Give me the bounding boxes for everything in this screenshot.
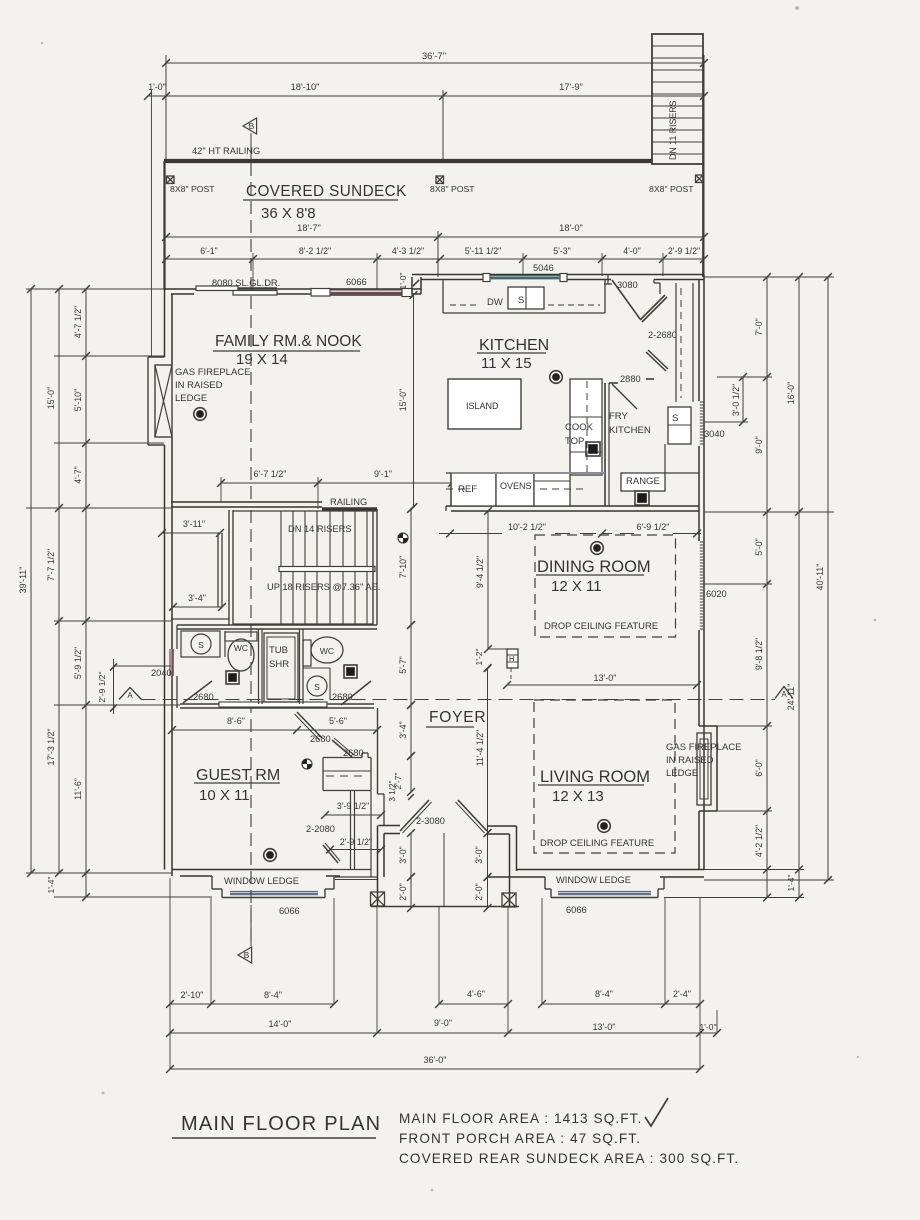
dim 13-0 dashed — [507, 684, 697, 686]
door 8080 sliding — [196, 286, 238, 291]
railing left edge — [163, 161, 165, 290]
counter e of ovens — [534, 473, 570, 506]
wc2 bowl — [311, 637, 343, 663]
pantry shelf dashed — [680, 288, 682, 398]
svg-text:9'-0": 9'-0" — [434, 1018, 452, 1028]
fireplace right bump — [699, 725, 717, 727]
ext line x166 top — [165, 55, 167, 160]
ext x377 — [376, 253, 378, 290]
dim 2-9half left — [113, 659, 115, 714]
kitchen light — [550, 371, 563, 384]
svg-text:SHR: SHR — [269, 659, 289, 670]
svg-text:6'-1": 6'-1" — [200, 246, 218, 256]
dim 2-0 porch R — [487, 877, 489, 908]
stairs DN 11 risers box — [652, 34, 703, 164]
dim 2-9half guest — [330, 849, 381, 851]
island — [448, 379, 521, 429]
svg-text:GAS FIREPLACE: GAS FIREPLACE — [175, 367, 251, 378]
jog wall 1'-0" — [411, 277, 413, 294]
dim 3-0 porch R — [487, 833, 489, 877]
svg-text:19 X 14: 19 X 14 — [236, 351, 288, 368]
svg-text:LIVING ROOM: LIVING ROOM — [540, 768, 650, 786]
fry kitchen walls — [604, 383, 606, 506]
svg-text:5'-3": 5'-3" — [553, 246, 571, 256]
svg-text:S: S — [672, 413, 678, 424]
vanity2 sink — [307, 676, 327, 696]
svg-text:2'-10": 2'-10" — [181, 990, 204, 1000]
svg-text:12 X 11: 12 X 11 — [551, 578, 602, 595]
svg-text:A: A — [127, 691, 133, 700]
svg-text:S: S — [314, 682, 320, 692]
section marker B top — [243, 118, 257, 134]
svg-text:39'-11": 39'-11" — [18, 567, 28, 594]
svg-text:36 X 8'8: 36 X 8'8 — [261, 205, 316, 222]
dim right chain1 — [766, 277, 768, 898]
ext x602 — [601, 253, 603, 276]
svg-text:4'-0": 4'-0" — [623, 246, 641, 256]
dim bottom chain1 right2 — [542, 1003, 700, 1005]
bottom ext lines — [169, 878, 171, 1069]
fireplace right box — [697, 733, 711, 805]
bath door1 swing — [183, 681, 212, 703]
svg-text:COVERED SUNDECK: COVERED SUNDECK — [246, 183, 407, 200]
svg-text:13'-0": 13'-0" — [593, 1022, 616, 1032]
bath divider2 — [299, 629, 301, 704]
dim left chain mid — [58, 289, 60, 873]
fry counter right — [664, 444, 666, 473]
svg-text:DROP CEILING FEATURE: DROP CEILING FEATURE — [544, 621, 658, 632]
svg-text:14'-0": 14'-0" — [269, 1019, 292, 1029]
svg-text:B: B — [249, 121, 255, 131]
svg-text:8080 SL.GL.DR.: 8080 SL.GL.DR. — [212, 278, 280, 288]
underline dining — [536, 574, 644, 576]
living window ledge — [544, 877, 546, 889]
svg-text:WC: WC — [234, 643, 248, 653]
post 8x8 mid — [436, 176, 444, 184]
door 2880 swing — [612, 384, 637, 409]
svg-text:1'-0": 1'-0" — [398, 273, 408, 290]
guest light — [264, 849, 277, 862]
svg-text:8'-2 1/2": 8'-2 1/2" — [299, 246, 331, 256]
svg-text:6020: 6020 — [706, 589, 727, 599]
entry closet — [323, 757, 362, 759]
svg-text:3 1/2": 3 1/2" — [388, 780, 397, 801]
svg-text:FOYER: FOYER — [429, 709, 486, 726]
svg-text:6066: 6066 — [566, 905, 587, 915]
underline kitchen — [477, 352, 546, 354]
svg-text:3'-0": 3'-0" — [474, 846, 484, 864]
dim right overall — [827, 277, 829, 880]
wall w of ref — [445, 506, 447, 511]
window 5046 jambs — [483, 274, 490, 282]
dim left chain inner — [85, 289, 87, 897]
svg-text:18'-7": 18'-7" — [297, 223, 321, 233]
svg-text:TOP: TOP — [565, 436, 584, 447]
guest closet doors — [323, 845, 338, 863]
dim bottom chain1 right — [439, 1003, 508, 1005]
railing leader — [250, 133, 252, 161]
svg-text:LEDGE: LEDGE — [175, 393, 207, 404]
svg-text:5'-10": 5'-10" — [73, 389, 83, 411]
svg-text:3'-4": 3'-4" — [188, 593, 206, 603]
svg-text:KITCHEN: KITCHEN — [479, 337, 549, 354]
svg-text:4'-7": 4'-7" — [73, 466, 83, 484]
dim bottom chain2 — [170, 1032, 717, 1034]
bath divider1 — [258, 629, 260, 704]
svg-text:3'-0 1/2": 3'-0 1/2" — [731, 384, 741, 416]
west wall inner — [171, 294, 173, 365]
counter top gray line — [451, 472, 605, 474]
svg-text:15'-0": 15'-0" — [398, 389, 408, 411]
kitchen south wall — [446, 505, 699, 507]
svg-text:2'-0": 2'-0" — [398, 883, 408, 901]
dim 3-4 left — [173, 606, 222, 608]
svg-text:2680: 2680 — [193, 692, 214, 702]
svg-text:GUEST RM: GUEST RM — [196, 767, 280, 784]
bath drain1 — [226, 671, 239, 684]
svg-text:17'-9": 17'-9" — [559, 82, 583, 92]
fry sink S — [668, 407, 691, 444]
svg-text:TUB: TUB — [269, 645, 288, 656]
left ext lines — [26, 288, 164, 290]
cooktop peninsula — [570, 379, 602, 475]
svg-text:FRONT PORCH AREA : 47 SQ.FT.: FRONT PORCH AREA : 47 SQ.FT. — [399, 1131, 641, 1146]
svg-text:MAIN FLOOR PLAN: MAIN FLOOR PLAN — [181, 1113, 381, 1135]
pantry walls — [675, 283, 677, 402]
svg-text:9'-0": 9'-0" — [754, 436, 764, 454]
svg-text:6066: 6066 — [346, 277, 367, 287]
porch post left — [371, 892, 385, 906]
porch wall right — [516, 826, 518, 871]
ext line x152 long — [151, 90, 153, 357]
west wall inner2 — [176, 625, 178, 649]
stairwell top edge — [233, 510, 377, 512]
kitchen dashes interior — [540, 488, 588, 490]
fireplace left bump — [148, 356, 165, 358]
svg-text:2680: 2680 — [310, 734, 331, 744]
bath top wall — [177, 624, 377, 626]
svg-text:MAIN FLOOR AREA : 1413 SQ.FT.: MAIN FLOOR AREA : 1413 SQ.FT. — [399, 1111, 642, 1126]
svg-text:S: S — [518, 295, 524, 306]
entry doors 2-3080 — [400, 800, 429, 831]
svg-text:5'-7": 5'-7" — [398, 656, 408, 674]
ext line x443 — [442, 90, 444, 163]
svg-text:2'-4": 2'-4" — [673, 989, 691, 999]
dim 15-0 right of family — [413, 295, 415, 507]
closet walls lower — [350, 791, 352, 869]
dining light — [591, 542, 604, 555]
ext line x438 — [437, 231, 439, 277]
svg-text:2'-9 1/2": 2'-9 1/2" — [340, 837, 372, 847]
dim 8-6 5-6 — [172, 729, 377, 731]
section A-A dashed — [142, 699, 776, 701]
ext x253 — [252, 253, 254, 290]
svg-text:8X8" POST: 8X8" POST — [649, 184, 694, 194]
ext lines nook dim — [220, 477, 222, 502]
svg-text:18'-10": 18'-10" — [291, 82, 320, 92]
closet door swing — [332, 740, 352, 757]
dim 3-0 porch L — [410, 833, 412, 877]
dim 7-10 vert — [410, 509, 412, 625]
section marker A left — [119, 688, 142, 700]
dim 5-7 vert — [410, 625, 412, 705]
bath threshold — [219, 702, 327, 707]
svg-text:13'-0": 13'-0" — [594, 673, 617, 683]
underline guest — [194, 782, 280, 784]
column leader — [488, 648, 507, 650]
dim right inner 3-0half — [742, 377, 744, 422]
sundeck railing 42in — [164, 159, 652, 163]
half circle hall — [302, 759, 312, 769]
dim bottom overall — [170, 1068, 700, 1070]
svg-text:6'-9 1/2": 6'-9 1/2" — [637, 522, 670, 532]
svg-text:24'-11": 24'-11" — [786, 684, 796, 711]
south wall living — [516, 869, 704, 871]
stair right wall — [372, 509, 374, 625]
svg-text:2'-9 1/2": 2'-9 1/2" — [668, 246, 700, 256]
bath drain2 — [344, 665, 357, 678]
east wall inner segs — [698, 280, 700, 402]
stair treads — [280, 511, 282, 624]
svg-text:WINDOW LEDGE: WINDOW LEDGE — [556, 875, 631, 885]
living drop ceiling dashed — [534, 700, 675, 853]
dim 11-4half vert — [487, 668, 489, 833]
window 6020 east — [700, 541, 703, 543]
guest window ledge — [211, 876, 213, 889]
svg-text:WC: WC — [320, 646, 334, 656]
ext line x704 top — [703, 55, 705, 277]
svg-text:8X8" POST: 8X8" POST — [170, 184, 215, 194]
svg-text:6066: 6066 — [279, 906, 300, 916]
dim 3-11 — [162, 532, 220, 534]
svg-text:LEDGE: LEDGE — [666, 768, 698, 779]
svg-text:5'-0": 5'-0" — [754, 538, 764, 556]
svg-text:2880: 2880 — [620, 374, 641, 384]
cooktop switch — [586, 442, 600, 456]
svg-text:S: S — [198, 640, 204, 650]
counter dashes — [450, 304, 480, 306]
svg-text:3'-4": 3'-4" — [398, 721, 408, 739]
stairwell left — [228, 510, 230, 625]
svg-text:3080: 3080 — [617, 280, 638, 290]
svg-text:6'-0": 6'-0" — [754, 759, 764, 777]
post 8x8 left — [167, 176, 175, 184]
door 3080 swing — [612, 280, 640, 319]
foyer west wall — [377, 708, 379, 794]
svg-text:B: B — [244, 950, 250, 960]
range switch — [635, 491, 649, 505]
guest window 6066 — [230, 891, 318, 893]
dim 36'-7" overall top — [166, 62, 704, 64]
svg-text:5046: 5046 — [533, 263, 554, 273]
window 2040 west — [169, 649, 171, 676]
svg-text:DN 14 RISERS: DN 14 RISERS — [288, 524, 352, 534]
svg-text:11 X 15: 11 X 15 — [481, 355, 532, 372]
svg-text:KITCHEN: KITCHEN — [609, 425, 651, 436]
svg-text:9'-4 1/2": 9'-4 1/2" — [475, 556, 485, 588]
stair left wall — [217, 533, 219, 607]
west wall outer — [164, 290, 166, 357]
window 3040 east — [700, 401, 703, 403]
svg-text:3'-0": 3'-0" — [398, 846, 408, 864]
svg-text:8'-4": 8'-4" — [595, 989, 613, 999]
svg-text:10'-2 1/2": 10'-2 1/2" — [508, 522, 546, 532]
dim 3-9half — [325, 814, 381, 816]
section marker B bottom — [238, 947, 252, 963]
north wall family outer — [164, 288, 421, 290]
svg-text:3'-11": 3'-11" — [183, 519, 205, 529]
front wall — [379, 825, 401, 827]
bath divider3 — [303, 667, 330, 669]
svg-text:7'-10": 7'-10" — [398, 556, 408, 578]
fireplace left box — [155, 365, 172, 437]
svg-text:4'-6": 4'-6" — [467, 989, 485, 999]
ref box — [451, 473, 496, 506]
underline foyer — [426, 726, 474, 728]
dim 3-4 vert foyer — [410, 705, 412, 756]
svg-text:1'-0": 1'-0" — [700, 1022, 717, 1032]
hall door swing — [297, 712, 322, 738]
svg-text:DROP CEILING FEATURE: DROP CEILING FEATURE — [540, 838, 654, 849]
svg-text:ISLAND: ISLAND — [466, 401, 499, 411]
svg-text:5'-6": 5'-6" — [329, 716, 347, 726]
svg-text:36'-0": 36'-0" — [424, 1055, 447, 1065]
svg-text:2-3080: 2-3080 — [416, 816, 445, 826]
pantry corner door — [640, 295, 665, 320]
bath door2 swing — [341, 681, 371, 705]
cooktop dashed center — [586, 381, 588, 473]
svg-text:1'-0": 1'-0" — [148, 82, 166, 92]
wc2 tank — [303, 640, 311, 666]
porch bottom — [371, 906, 519, 908]
svg-text:9'-8 1/2": 9'-8 1/2" — [754, 638, 764, 670]
svg-text:GAS FIREPLACE: GAS FIREPLACE — [666, 742, 742, 753]
svg-text:2'-9 1/2": 2'-9 1/2" — [97, 671, 107, 702]
south wall guest — [172, 869, 332, 871]
dim 1'-0" / 18'-10" / 17'-9" — [148, 95, 704, 97]
post 8x8 right — [696, 175, 704, 183]
living window 6066 — [558, 891, 651, 893]
svg-text:9'-1": 9'-1" — [374, 469, 392, 479]
svg-text:8'-6": 8'-6" — [227, 716, 245, 726]
dim 9-4half vert — [487, 511, 489, 649]
svg-text:H: H — [509, 654, 514, 663]
family ceiling light — [194, 408, 207, 421]
svg-text:A: A — [781, 690, 787, 699]
window 5046 — [490, 275, 560, 277]
svg-text:COVERED REAR SUNDECK AREA : 30: COVERED REAR SUNDECK AREA : 300 SQ.FT. — [399, 1151, 739, 1166]
svg-text:18'-0": 18'-0" — [559, 223, 583, 233]
porch post right — [502, 893, 516, 907]
east wall outer — [703, 275, 705, 870]
svg-text:1'-2": 1'-2" — [474, 649, 484, 666]
svg-text:11'-6": 11'-6" — [73, 778, 83, 800]
svg-text:2680: 2680 — [332, 692, 353, 702]
north wall kitchen inner — [421, 279, 483, 281]
door 3080 jamb — [607, 275, 609, 285]
svg-text:5'-9 1/2": 5'-9 1/2" — [73, 647, 83, 679]
svg-text:8'-4": 8'-4" — [264, 990, 282, 1000]
dim bottom chain1 left — [170, 1003, 334, 1005]
landing-bath wall — [171, 618, 229, 620]
ovens box — [496, 473, 534, 506]
svg-text:4'-7 1/2": 4'-7 1/2" — [73, 306, 83, 338]
svg-text:5'-11 1/2": 5'-11 1/2" — [465, 246, 501, 256]
svg-text:12 X 13: 12 X 13 — [552, 788, 604, 805]
north wall kitchen outer — [412, 274, 704, 276]
svg-text:1'-4": 1'-4" — [46, 877, 56, 894]
svg-text:8X8" POST: 8X8" POST — [430, 184, 475, 194]
underline covered sundeck — [243, 199, 398, 201]
svg-text:6'-7 1/2": 6'-7 1/2" — [254, 469, 287, 479]
svg-text:16'-0": 16'-0" — [786, 382, 796, 404]
svg-text:3'-9 1/2": 3'-9 1/2" — [337, 801, 369, 811]
svg-text:11'-4 1/2": 11'-4 1/2" — [475, 730, 485, 766]
dim chain top of walls — [166, 258, 704, 260]
svg-text:2-2080: 2-2080 — [306, 824, 335, 834]
svg-text:2-2680: 2-2680 — [648, 330, 677, 340]
dim left overall — [30, 289, 32, 873]
stair landing bar — [279, 567, 375, 572]
svg-text:RANGE: RANGE — [626, 476, 660, 487]
ext x523 — [522, 253, 524, 276]
svg-text:2040: 2040 — [151, 668, 172, 678]
svg-text:1'-4": 1'-4" — [786, 875, 796, 892]
fry kitchen corner diag — [646, 352, 666, 371]
svg-text:7'-7 1/2": 7'-7 1/2" — [46, 549, 56, 581]
wc1 tank — [225, 632, 257, 641]
svg-text:42" HT RAILING: 42" HT RAILING — [192, 146, 260, 156]
window 6066 top — [330, 289, 402, 291]
svg-text:FRY: FRY — [609, 411, 628, 422]
svg-text:IN RAISED: IN RAISED — [175, 380, 223, 391]
svg-text:10 X 11: 10 X 11 — [199, 787, 250, 804]
svg-text:IN RAISED: IN RAISED — [666, 755, 714, 766]
svg-text:UP 18 RISERS @7.36" AE.: UP 18 RISERS @7.36" AE. — [267, 582, 380, 592]
svg-text:COOK: COOK — [565, 422, 594, 433]
svg-text:15'-0": 15'-0" — [46, 387, 56, 409]
svg-text:OVENS: OVENS — [500, 481, 532, 491]
window 6066 top jamb right — [402, 289, 412, 297]
title underline — [172, 1137, 376, 1139]
dim right chain2 — [798, 277, 800, 898]
nook railing — [322, 507, 377, 511]
svg-text:3040: 3040 — [704, 429, 725, 439]
underline family — [213, 350, 360, 352]
svg-text:4'-2 1/2": 4'-2 1/2" — [754, 825, 764, 857]
dim 2-7 vert — [410, 756, 412, 792]
svg-text:4'-3 1/2": 4'-3 1/2" — [392, 246, 424, 256]
svg-text:DW: DW — [487, 297, 503, 308]
porch center line — [443, 833, 445, 906]
closet side jog — [370, 869, 372, 877]
wc1 bowl — [228, 639, 254, 671]
dining drop ceiling dashed — [535, 535, 676, 637]
porch wall left — [377, 826, 379, 907]
svg-text:7'-0": 7'-0" — [754, 318, 764, 336]
living light — [598, 820, 611, 833]
svg-text:DN 11 RISERS: DN 11 RISERS — [668, 100, 678, 160]
svg-text:DINING ROOM: DINING ROOM — [537, 558, 651, 576]
svg-text:17'-3 1/2": 17'-3 1/2" — [46, 728, 56, 765]
section marker A right — [775, 687, 793, 699]
pantry corner jamb — [653, 280, 655, 284]
svg-text:2'-0": 2'-0" — [474, 883, 484, 901]
checkmark — [645, 1098, 668, 1126]
kitchen top counter — [442, 280, 444, 314]
svg-text:WINDOW LEDGE: WINDOW LEDGE — [224, 876, 299, 886]
svg-text:40'-11": 40'-11" — [815, 564, 825, 591]
